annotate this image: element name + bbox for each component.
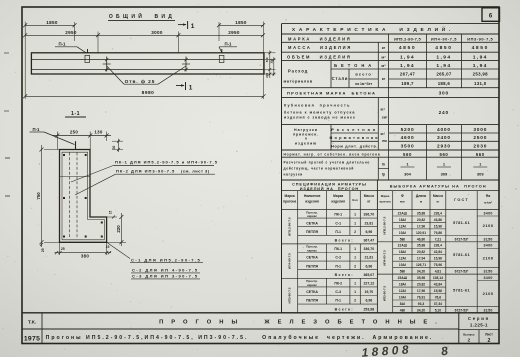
svg-text:изделия: изделия <box>331 200 345 204</box>
svg-text:7,21: 7,21 <box>435 237 442 241</box>
svg-text:138,14: 138,14 <box>433 276 443 280</box>
svg-text:ИП5.2-90-7,5: ИП5.2-90-7,5 <box>394 37 421 42</box>
svg-text:18АI: 18АI <box>399 282 406 286</box>
svg-text:изделия с завода не менее: изделия с завода не менее <box>284 116 356 120</box>
svg-text:15,96: 15,96 <box>434 289 442 293</box>
svg-text:ИП3-90-7,5: ИП3-90-7,5 <box>467 37 493 42</box>
lifting loop right <box>219 49 224 62</box>
svg-text:ПК-1 ДЛЯ ИП5.2-90-7.5 и ИП4-90: ПК-1 ДЛЯ ИП5.2-90-7.5 и ИП4-90-7.5 <box>115 160 218 165</box>
svg-text:ПРОГОНЫ ЖЕЛЕЗОБЕТОННЫЕ.: ПРОГОНЫ ЖЕЛЕЗОБЕТОННЫЕ. <box>159 319 445 325</box>
svg-text:20,82: 20,82 <box>417 282 425 286</box>
vyborka table grid <box>377 191 499 313</box>
svg-text:18АI: 18АI <box>399 218 406 222</box>
svg-text:ОБЩИЙ ВИД: ОБЩИЙ ВИД <box>109 12 175 20</box>
svg-text:17,96: 17,96 <box>417 289 425 293</box>
svg-text:П-1: П-1 <box>33 127 41 132</box>
svg-text:150: 150 <box>270 58 274 63</box>
svg-text:226,4: 226,4 <box>434 211 442 215</box>
cover dim 25 left bottom <box>40 243 45 252</box>
svg-text:ПРОЕКТНАЯ МАРКА БЕТОНА: ПРОЕКТНАЯ МАРКА БЕТОНА <box>287 91 376 96</box>
svg-text:Норм длит. действ.: Норм длит. действ. <box>331 144 378 148</box>
svg-text:2: 2 <box>354 299 356 303</box>
svg-text:нагрузки: нагрузки <box>284 173 303 177</box>
svg-text:БЕТОНА: БЕТОНА <box>334 63 375 68</box>
svg-text:30: 30 <box>112 146 116 150</box>
svg-text:560: 560 <box>476 152 485 157</box>
row proektnaya marka betona <box>287 91 449 97</box>
svg-text:Всего:: Всего: <box>335 307 354 311</box>
svg-text:380: 380 <box>81 253 89 258</box>
svg-text:Длина: Длина <box>416 194 426 198</box>
svg-text:15,96: 15,96 <box>434 224 442 228</box>
svg-text:8АI: 8АI <box>400 302 405 306</box>
beam bottom flange line <box>31 69 264 71</box>
svg-text:мм: мм <box>400 200 405 204</box>
svg-text:15: 15 <box>109 211 113 215</box>
beam outline side view <box>31 53 264 74</box>
svg-text:СЕТКА: СЕТКА <box>306 256 318 260</box>
svg-text:130: 130 <box>94 130 102 135</box>
svg-text:21,61: 21,61 <box>364 256 373 260</box>
svg-text:23,81: 23,81 <box>364 221 373 225</box>
svg-text:действующ. части нормативной: действующ. части нормативной <box>284 166 355 170</box>
svg-text:37,34: 37,34 <box>434 302 442 306</box>
svg-text:1: 1 <box>354 282 356 286</box>
svg-text:Ф: Ф <box>401 194 404 198</box>
svg-text:336,70: 336,70 <box>363 247 374 251</box>
svg-text:10АI: 10АI <box>399 231 406 235</box>
svg-text:ИП3-90-7.5: ИП3-90-7.5 <box>288 287 292 303</box>
svg-text:Нормативная: Нормативная <box>330 135 380 140</box>
svg-text:120,91: 120,91 <box>416 231 426 235</box>
dimension 1850 right <box>217 20 265 28</box>
svg-text:265,07: 265,07 <box>436 72 451 77</box>
svg-text:ИП3-90-7.5: ИП3-90-7.5 <box>383 285 387 301</box>
specification column headers <box>283 194 374 204</box>
svg-text:35,88: 35,88 <box>417 211 425 215</box>
svg-text:2100: 2100 <box>483 223 494 228</box>
svg-text:С-3 ДЛЯ ИП 3-90-7.5: С-3 ДЛЯ ИП 3-90-7.5 <box>132 274 199 279</box>
callout PK-1 <box>71 160 218 182</box>
svg-text:3000: 3000 <box>151 30 163 35</box>
svg-text:510: 510 <box>265 57 269 62</box>
svg-text:75,96: 75,96 <box>434 263 442 267</box>
svg-text:2930: 2930 <box>437 144 451 150</box>
svg-text:367,47: 367,47 <box>363 239 374 243</box>
svg-text:46,80: 46,80 <box>417 237 425 241</box>
vyborka gost values <box>453 220 471 313</box>
svg-text:изделию: изделию <box>295 141 317 145</box>
section 1-1 outline <box>60 150 107 243</box>
beam top flange line <box>31 59 264 61</box>
section cut mark 1 bottom <box>176 82 193 92</box>
svg-text:Стали: Стали <box>332 76 349 81</box>
svg-text:на 1м³ бет: на 1м³ бет <box>355 82 372 86</box>
svg-text:34,20: 34,20 <box>417 308 425 312</box>
svg-text:МАРКА ИЗДЕЛИЯ: МАРКА ИЗДЕЛИЯ <box>288 37 351 42</box>
svg-text:12АI: 12АI <box>399 257 406 261</box>
svg-text:кг/: кг/ <box>380 132 384 136</box>
svg-text:20,82: 20,82 <box>417 218 425 222</box>
vyborka group labels <box>383 216 387 301</box>
callout C-3 <box>131 274 200 279</box>
svg-text:4600: 4600 <box>401 135 415 141</box>
svg-text:10АI: 10АI <box>399 295 406 299</box>
svg-text:1850: 1850 <box>46 20 58 25</box>
hole callout otv f25 <box>107 66 186 85</box>
svg-text:6,96: 6,96 <box>365 299 372 303</box>
svg-text:ВЫБОРКА АРМАТУРЫ НА ПРОГОН: ВЫБОРКА АРМАТУРЫ НА ПРОГОН <box>390 184 487 188</box>
svg-text:П-1: П-1 <box>335 230 341 234</box>
svg-text:2: 2 <box>354 230 356 234</box>
svg-text:15: 15 <box>106 245 110 249</box>
svg-text:5781-61: 5781-61 <box>453 288 471 293</box>
svg-text:3150: 3150 <box>483 237 492 241</box>
svg-text:3400: 3400 <box>483 276 492 280</box>
svg-text:Марка: Марка <box>333 194 343 198</box>
svg-text:fo: fo <box>382 163 385 167</box>
svg-text:к: к <box>305 137 307 141</box>
svg-text:188,6: 188,6 <box>438 81 451 86</box>
svg-text:6727-53*: 6727-53* <box>455 237 469 241</box>
svg-text:25: 25 <box>41 248 45 252</box>
svg-text:20,82: 20,82 <box>417 250 425 254</box>
svg-text:79,86: 79,86 <box>434 231 442 235</box>
svg-text:ИП4-90-7,5: ИП4-90-7,5 <box>431 37 457 42</box>
svg-text:15,96: 15,96 <box>434 257 442 261</box>
section 1-1 title <box>65 111 86 117</box>
svg-text:П-1: П-1 <box>59 42 67 47</box>
svg-text:кг/см²: кг/см² <box>484 201 492 205</box>
svg-text:1: 1 <box>354 213 356 217</box>
svg-text:Масса: Масса <box>433 194 443 198</box>
svg-text:1850: 1850 <box>235 20 247 25</box>
section cut mark 1 top <box>178 21 195 30</box>
svg-text:1,94: 1,94 <box>473 55 488 61</box>
svg-text:ИП5.2-90-7.5: ИП5.2-90-7.5 <box>383 216 387 234</box>
hole 1 center mark <box>103 57 111 72</box>
svg-text:220: 220 <box>116 225 121 233</box>
svg-text:ПЕТЛЯ: ПЕТЛЯ <box>306 299 318 303</box>
svg-text:ПК-1: ПК-1 <box>334 213 342 217</box>
rebar section dots <box>63 154 103 238</box>
svg-text:304: 304 <box>404 171 411 176</box>
vyborka table data <box>398 211 443 312</box>
svg-text:3150: 3150 <box>483 308 492 312</box>
fold mark 3 <box>5 157 10 159</box>
svg-text:12АI: 12АI <box>399 289 406 293</box>
svg-text:Нормат. нагр. от собствен. вес: Нормат. нагр. от собствен. веса прогона <box>284 153 381 157</box>
svg-text:каркас: каркас <box>307 214 317 218</box>
svg-text:1: 1 <box>354 221 356 225</box>
svg-text:2100: 2100 <box>483 255 494 260</box>
svg-text:76,91: 76,91 <box>417 295 425 299</box>
label P-1 left <box>55 42 86 53</box>
general view title <box>108 12 175 21</box>
svg-text:240: 240 <box>439 110 449 116</box>
svg-text:35,98: 35,98 <box>417 276 425 280</box>
svg-text:Rа: Rа <box>486 194 490 198</box>
vertical dimension 750 <box>36 145 60 247</box>
svg-text:П-1: П-1 <box>335 299 341 303</box>
svg-text:ПЕТЛЯ: ПЕТЛЯ <box>306 264 318 268</box>
extension line loop right <box>218 22 220 41</box>
beam end height dims 510 150 220 <box>264 51 276 79</box>
specification group labels <box>288 217 292 303</box>
extension line loop left <box>74 22 76 41</box>
block nagruzki <box>293 127 487 150</box>
label P-1 section <box>30 127 75 145</box>
svg-text:1: 1 <box>354 256 356 260</box>
loop stem on section top <box>75 141 77 149</box>
svg-text:22АШ: 22АШ <box>398 211 408 215</box>
svg-text:прогона: прогона <box>283 200 296 204</box>
svg-text:изделия: изделия <box>305 200 319 204</box>
vyborka column headers <box>379 194 492 205</box>
svg-text:131,0: 131,0 <box>474 81 487 86</box>
svg-text:Лист: Лист <box>485 332 493 336</box>
svg-text:253,98: 253,98 <box>363 307 374 311</box>
series box <box>463 316 493 344</box>
svg-text:1: 1 <box>191 23 195 30</box>
svg-text:Выпуск: Выпуск <box>463 332 475 336</box>
svg-text:6,96: 6,96 <box>365 264 372 268</box>
svg-text:35,88: 35,88 <box>417 244 425 248</box>
svg-text:СЕТКА: СЕТКА <box>306 221 318 225</box>
svg-text:ИП4-90-7.5: ИП4-90-7.5 <box>288 253 292 269</box>
svg-text:18808: 18808 <box>361 342 412 357</box>
svg-text:1,94: 1,94 <box>400 55 415 61</box>
svg-text:Кол: Кол <box>352 198 358 202</box>
svg-text:прогона: прогона <box>379 200 391 204</box>
svg-text:ПК-1: ПК-1 <box>334 247 342 251</box>
characteristics table grid <box>282 24 500 180</box>
svg-text:6727-53*: 6727-53* <box>455 270 469 274</box>
callout C-2 <box>131 268 200 273</box>
svg-text:м³: м³ <box>381 64 386 68</box>
svg-text:ИП5.2-90-7.5: ИП5.2-90-7.5 <box>288 217 292 236</box>
svg-text:43,86: 43,86 <box>434 218 442 222</box>
svg-text:Нагрузки: Нагрузки <box>294 128 318 132</box>
svg-text:300: 300 <box>439 91 449 97</box>
svg-text:336,70: 336,70 <box>363 213 374 217</box>
svg-text:Марка: Марка <box>285 194 295 198</box>
row marka izdeliya <box>288 37 494 42</box>
vyborka Ra values <box>483 211 494 312</box>
svg-text:СЕТКА: СЕТКА <box>306 290 318 294</box>
specification table grid <box>282 180 378 313</box>
svg-text:ПК-2 ДЛЯ ИП3-90-7.5: ПК-2 ДЛЯ ИП3-90-7.5 <box>116 168 175 173</box>
svg-text:Серия: Серия <box>468 316 490 321</box>
extension line left end <box>24 22 26 100</box>
svg-text:17,96: 17,96 <box>417 224 425 228</box>
svg-text:309: 309 <box>477 171 484 176</box>
svg-text:С-1 ДЛЯ ИП5.2-90-7.5: С-1 ДЛЯ ИП5.2-90-7.5 <box>131 257 201 262</box>
row massa izdeliya <box>288 45 489 51</box>
svg-text:3500: 3500 <box>401 144 415 150</box>
svg-text:25АШ: 25АШ <box>398 276 408 280</box>
svg-text:6727-53*: 6727-53* <box>455 308 469 312</box>
svg-text:1975: 1975 <box>24 335 40 342</box>
svg-text:пм: пм <box>382 139 387 143</box>
svg-text:3400: 3400 <box>483 211 492 215</box>
svg-text:1.225-1: 1.225-1 <box>470 323 488 328</box>
svg-text:1: 1 <box>354 290 356 294</box>
lifting loop left <box>85 49 90 62</box>
svg-text:6,96: 6,96 <box>365 230 372 234</box>
svg-text:227,12: 227,12 <box>363 282 374 286</box>
svg-text:ПЕТЛЯ: ПЕТЛЯ <box>306 230 318 234</box>
svg-text:ПК-2: ПК-2 <box>334 282 342 286</box>
dimension 1850 left <box>23 20 76 28</box>
svg-text:3150: 3150 <box>483 270 492 274</box>
label P-1 right <box>219 42 237 53</box>
svg-text:Расход: Расход <box>288 69 308 74</box>
svg-text:ИП4-90-7.5: ИП4-90-7.5 <box>383 250 387 266</box>
svg-text:2: 2 <box>354 264 356 268</box>
svg-text:18АI: 18АI <box>399 250 406 254</box>
svg-text:5,10: 5,10 <box>435 308 442 312</box>
svg-text:1: 1 <box>189 85 193 92</box>
svg-text:1,94: 1,94 <box>473 63 488 69</box>
svg-text:С-2 ДЛЯ ИП 4-90-7.5: С-2 ДЛЯ ИП 4-90-7.5 <box>132 268 199 273</box>
svg-text:5200: 5200 <box>401 127 415 133</box>
svg-text:1: 1 <box>354 247 356 251</box>
svg-text:Наименов: Наименов <box>304 194 321 198</box>
rebar dashed line 2 <box>76 153 78 239</box>
callout C-1 <box>107 242 203 262</box>
svg-text:2030: 2030 <box>473 144 487 150</box>
svg-text:93,3: 93,3 <box>418 302 425 306</box>
extension line 2950 tick <box>97 32 99 53</box>
svg-text:каркас: каркас <box>307 249 317 253</box>
block raschetny progib <box>284 160 488 176</box>
svg-text:4850: 4850 <box>399 45 416 51</box>
svg-text:Расчетный прогиб с учетом длит: Расчетный прогиб с учетом длительно <box>284 160 371 164</box>
svg-text:220: 220 <box>265 72 269 77</box>
svg-text:Марка: Марка <box>381 194 390 198</box>
svg-text:Расчетная: Расчетная <box>331 127 378 132</box>
svg-text:Кубиковая прочность: Кубиковая прочность <box>284 104 351 108</box>
svg-text:4850: 4850 <box>435 45 452 51</box>
svg-text:365,07: 365,07 <box>363 273 374 277</box>
svg-text:226,4: 226,4 <box>434 244 442 248</box>
svg-text:С-1: С-1 <box>335 221 341 225</box>
extension line right end <box>263 22 265 100</box>
svg-text:309: 309 <box>441 171 448 176</box>
svg-text:1,94: 1,94 <box>436 63 451 69</box>
svg-text:5781-61: 5781-61 <box>453 220 471 225</box>
svg-text:МАССА ИЗДЕЛИЯ: МАССА ИЗДЕЛИЯ <box>288 45 352 50</box>
svg-text:4,81: 4,81 <box>435 270 442 274</box>
svg-text:12АI: 12АI <box>399 224 406 228</box>
svg-text:Т.К.: Т.К. <box>28 319 36 325</box>
specification table header band <box>292 183 367 191</box>
svg-text:42,84: 42,84 <box>434 250 442 254</box>
svg-text:34,20: 34,20 <box>417 270 425 274</box>
svg-text:Всего:: Всего: <box>335 239 354 243</box>
svg-text:560: 560 <box>403 152 412 157</box>
dimension line 2950 3000 2950 <box>23 30 265 38</box>
svg-text:22АШ: 22АШ <box>398 244 408 248</box>
svg-text:2: 2 <box>488 338 491 344</box>
row sobstv ves <box>284 152 485 157</box>
fold mark 4 <box>5 195 10 197</box>
svg-text:СПЕЦИФИКАЦИЯ АРМАТУРЫ: СПЕЦИФИКАЦИЯ АРМАТУРЫ <box>292 183 367 187</box>
svg-text:3400: 3400 <box>437 135 451 141</box>
hole 2 center mark <box>182 57 190 72</box>
svg-text:С-3: С-3 <box>335 290 341 294</box>
svg-text:кг/: кг/ <box>380 108 384 112</box>
loop height dim 30 <box>112 139 123 152</box>
row obem izdeliya <box>287 54 488 60</box>
svg-text:3400: 3400 <box>483 244 492 248</box>
svg-text:5ВI: 5ВI <box>400 270 405 274</box>
svg-text:5ВI: 5ВI <box>400 237 405 241</box>
stirrup inner contour <box>62 152 104 240</box>
svg-text:м³: м³ <box>381 55 386 59</box>
vertical dimension 220 <box>107 213 126 246</box>
svg-text:5781-61: 5781-61 <box>453 252 471 257</box>
svg-text:19,70: 19,70 <box>364 290 373 294</box>
section top dimension 250 and 130 <box>52 130 111 150</box>
svg-text:76,6: 76,6 <box>435 295 442 299</box>
svg-text:17,94: 17,94 <box>417 257 425 261</box>
svg-text:3000: 3000 <box>473 127 487 133</box>
svg-text:Масса: Масса <box>364 194 374 198</box>
svg-text:253,98: 253,98 <box>473 72 488 77</box>
sheet number box 6 <box>482 8 500 21</box>
fold mark top <box>4 52 9 54</box>
svg-text:2500: 2500 <box>473 135 487 141</box>
svg-text:560: 560 <box>439 152 448 157</box>
rebar dashed line 1 <box>69 153 71 239</box>
svg-text:8980: 8980 <box>142 90 155 96</box>
svg-text:кг: кг <box>382 77 386 81</box>
svg-text:ГОСТ: ГОСТ <box>454 198 469 202</box>
callout PK-2 <box>75 168 215 195</box>
svg-text:267,47: 267,47 <box>400 72 415 77</box>
fold mark 2 <box>4 110 9 112</box>
svg-text:fp: fp <box>382 173 385 177</box>
svg-text:кг: кг <box>382 46 386 50</box>
svg-text:всего: всего <box>355 71 372 76</box>
svg-text:10АI: 10АI <box>399 263 406 267</box>
svg-text:4000: 4000 <box>437 127 451 133</box>
svg-text:4850: 4850 <box>472 45 489 51</box>
svg-text:Всего:: Всего: <box>335 273 354 277</box>
svg-text:2950: 2950 <box>228 30 240 35</box>
svg-text:750: 750 <box>36 192 41 200</box>
svg-text:С-2: С-2 <box>335 256 341 260</box>
foot top dim 15 <box>107 211 117 219</box>
title block grid <box>22 313 499 344</box>
overall dimension 8980 <box>23 90 265 98</box>
block kubikovaya prochnost <box>284 104 449 120</box>
svg-text:1-1: 1-1 <box>71 111 80 117</box>
svg-text:43,84: 43,84 <box>434 282 442 286</box>
svg-text:ОБЪЕМ ИЗДЕЛИЯ: ОБЪЕМ ИЗДЕЛИЯ <box>287 54 352 59</box>
svg-text:1,94: 1,94 <box>436 55 451 61</box>
svg-text:2100: 2100 <box>483 291 494 296</box>
svg-text:материалов: материалов <box>284 78 313 83</box>
svg-text:250: 250 <box>70 130 78 135</box>
extension line 3000 tick <box>177 32 179 53</box>
svg-text:126,71: 126,71 <box>416 263 426 267</box>
svg-text:(см. лист 3): (см. лист 3) <box>181 168 210 173</box>
svg-text:189,7: 189,7 <box>401 81 414 86</box>
web mid line <box>60 176 91 178</box>
